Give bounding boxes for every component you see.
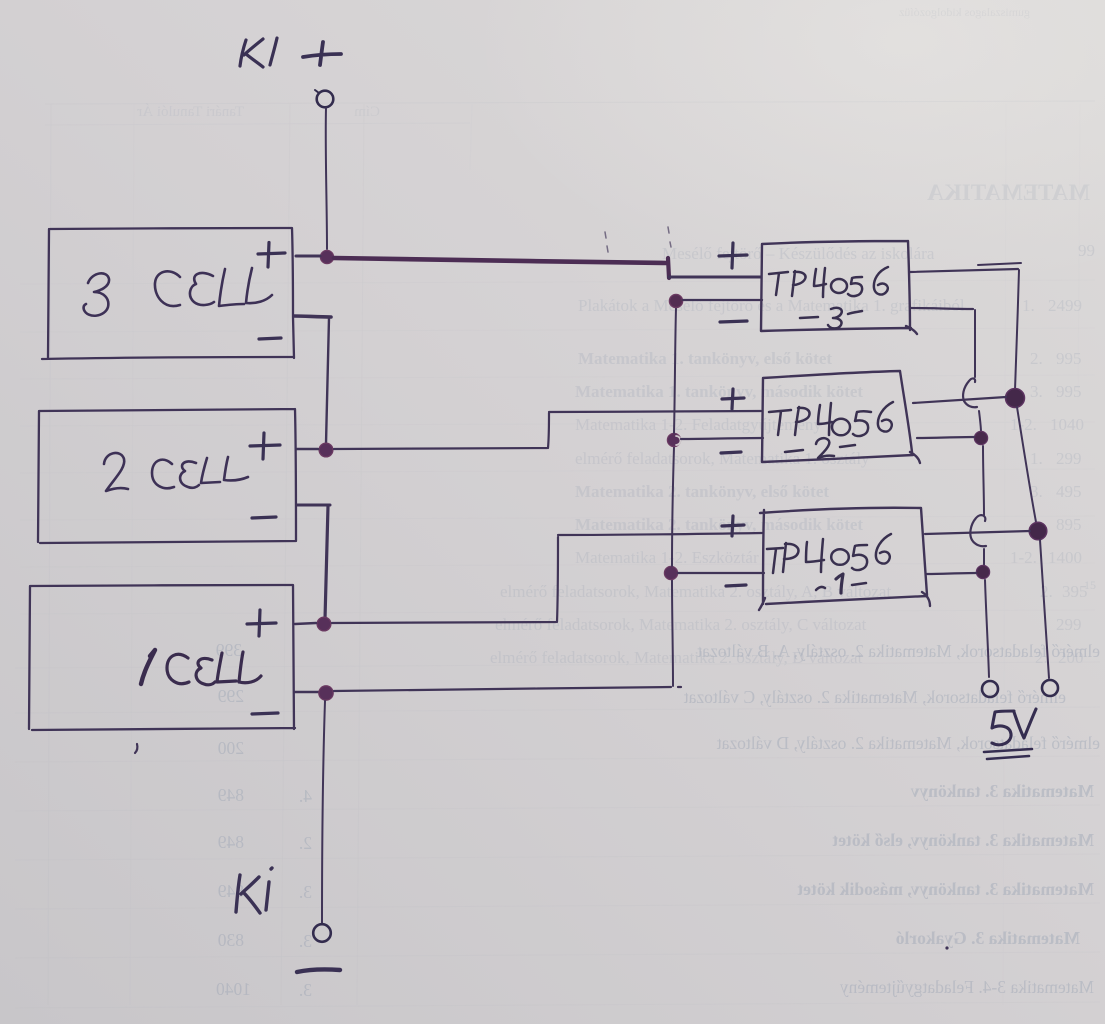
svg-text:3.: 3. [299,931,312,951]
wire 5V+ bus node A down to node B [1017,407,1036,522]
wire 5V- bus hop to node D [983,549,985,565]
svg-text:1040: 1040 [216,979,251,999]
terminal KI- circle [313,924,331,942]
terminal 5V+ circle [1042,680,1058,696]
label TP4056 (U1) [767,534,891,573]
stray dot right bottom [945,946,948,949]
wire 1CELL- exit to node 1CELL- [295,691,318,694]
svg-text:299: 299 [1056,449,1082,468]
label 5V [992,709,1036,745]
label - at U3 input [720,321,747,322]
svg-text:399: 399 [216,640,243,660]
label - of KI- [297,969,340,972]
svg-text:1040: 1040 [1050,415,1084,434]
svg-text:Matematika 1. tankönyv, másodi: Matematika 1. tankönyv, második kötet [575,382,863,401]
label - of 2 CELL [252,517,276,518]
node 1CELL+ junction dot [317,617,331,631]
svg-text:Mesélő fejtörő – Készülődés az: Mesélő fejtörő – Készülődés az iskolára [662,244,935,263]
svg-text:Cím: Cím [354,104,380,120]
stray comma mark below 1 CELL [135,744,137,753]
label 5V underline [984,749,1032,759]
svg-text:4.: 4. [299,786,312,806]
label + at U1 input [722,516,744,536]
label -2- (U2) [785,438,855,458]
wire U2 OUT+ to node A [913,397,1006,403]
label 2 CELL text [104,453,248,491]
wire U2 B- into module [681,438,763,439]
svg-text:Matematika 3-4. Feladatgyűjtem: Matematika 3-4. Feladatgyűjtemény [840,977,1094,997]
wire 3CELL- exit to series link [294,316,331,317]
wire 5V- bus node D down to 5V- terminal [985,580,989,677]
wire 5V- bus node C down to hop over U1 OUT+ [983,446,984,515]
node U2 B- junction dot [667,433,680,446]
svg-text:2.: 2. [1030,349,1043,368]
terminal 5V- circle [982,681,998,697]
wire node 2CELL+ to TP4056-2 B+ (with step up) [334,411,761,449]
svg-text:849: 849 [218,785,245,805]
wire 5V+ bus down to node A [1015,270,1019,390]
svg-text:895: 895 [1056,515,1082,534]
label Ki (bottom) [236,868,272,913]
stray ink dashes above KI+ wire [605,227,671,252]
wire B- bus from U1 node up to U2 node [672,447,674,566]
label + of 2 CELL [250,433,280,459]
svg-text:99: 99 [1078,241,1095,260]
node 1CELL- junction dot [319,686,333,700]
svg-text:200: 200 [218,738,245,758]
svg-text:3.: 3. [299,882,312,902]
wire U3 OUT- to 5V- bus corner [910,308,973,309]
svg-text:elmérő feladatsorok, Matematik: elmérő feladatsorok, Matematika 2. osztá… [717,733,1100,753]
label TP4056 (U3) [769,267,888,297]
label + at U2 input [722,389,744,409]
battery B1 box (1 CELL) [29,585,295,730]
svg-text:Matematika 3. tankönyv: Matematika 3. tankönyv [910,781,1094,801]
wire 2CELL- exit to series link [297,504,330,507]
label 3 CELL text [84,268,272,316]
svg-text:Plakátok a Mesélő fejtörő és a: Plakátok a Mesélő fejtörő és a Matematik… [578,296,965,315]
wire node 1CELL- to B- bus corner [334,687,681,691]
node 3CELL+ junction dot [320,250,333,263]
svg-text:Matematika 1-2. Feladatgyűjtem: Matematika 1-2. Feladatgyűjtemény [575,415,822,434]
label + of 1 CELL [247,610,276,636]
label + at U3 input [719,243,747,268]
svg-text:1400: 1400 [1048,548,1082,567]
label 1 CELL text [141,650,261,685]
svg-text:2.: 2. [299,833,312,853]
svg-text:Matematika 2. tankönyv, másodi: Matematika 2. tankönyv, második kötet [575,515,863,534]
svg-text:495: 495 [1056,482,1082,501]
module U1 box (TP4056 -1-) [759,508,930,610]
node 2CELL+ junction dot [319,443,333,457]
wire U3 OUT+ to 5V+ bus corner [910,269,1018,272]
label - of 1 CELL [252,713,278,714]
node A junction dot (U2 OUT+ joins 5V+ bus) [1006,389,1025,408]
label TP4056 (U2) [769,402,893,436]
svg-text:830: 830 [218,930,245,950]
svg-text:2499: 2499 [1048,296,1082,315]
node D junction dot (U1 OUT- joins 5V- bus) [976,565,989,578]
svg-text:elmérő feladatsorok, Matematik: elmérő feladatsorok, Matematika 2. osztá… [697,641,1100,661]
svg-text:15: 15 [1084,578,1096,592]
wire series link 3CELL- down to node 2CELL+ [326,318,329,444]
label -1- (U1) [816,574,866,593]
module U3 box (TP4056 -3-) [761,241,917,334]
label + of 3 CELL [258,243,285,268]
wire B- bus rising from corner to U1 B- node [672,580,673,686]
wire node 1CELL+ to TP4056-1 B+ (with step up) [332,533,762,623]
wire overshoot tick above corner [978,263,1021,265]
wire node 2CELL+ to battery 2 CELL plus terminal [297,448,318,451]
svg-text:3.: 3. [1030,382,1043,401]
wire jog down at x668 [668,258,669,278]
svg-text:Matematika 3. Gyakorló: Matematika 3. Gyakorló [896,928,1080,948]
wire into TP4056-3 B+ pin [669,276,761,279]
module U2 box (TP4056 -2-) [762,371,920,463]
wire series link 2CELL- down to node 1CELL+ [325,506,328,619]
label - at U2 input [721,452,741,453]
wire KI+ terminal to node 3CELL+ [326,108,327,249]
wire 5V- bus down to hop over U2 OUT+ [974,310,976,377]
svg-text:Matematika 3. tankönyv, első k: Matematika 3. tankönyv, első kötet [832,830,1094,850]
svg-text:MATEMATIKA: MATEMATIKA [927,180,1090,205]
svg-text:299: 299 [1056,615,1082,634]
wire U1 OUT+ to node B [925,531,1030,534]
svg-text:995: 995 [1056,349,1082,368]
wire 5V- bus hop to node C [979,411,981,432]
terminal KI+ circle [315,90,333,107]
label - of 3 CELL [259,338,281,339]
svg-text:elmérő feladatsorok, Matematik: elmérő feladatsorok, Matematika 2. osztá… [495,615,867,634]
wire hop (5V- bus jumps U1 OUT+ wire) [970,515,986,546]
svg-text:elmérő feladatsorok, Matematik: elmérő feladatsorok, Matematika 2. osztá… [684,687,1066,707]
wire U1 OUT- to node D [927,573,976,574]
wire B- bus from U2 node up to U3 node [674,308,676,433]
svg-text:995: 995 [1056,382,1082,401]
wire node 3CELL+ to TP4056-3 B+ (thick) [334,258,667,263]
node B junction dot (U1 OUT+ joins 5V+ bus) [1029,522,1047,540]
wire hop (5V- bus jumps U2 OUT+ wire) [963,378,977,407]
svg-text:1-2.: 1-2. [1010,415,1037,434]
node U3 B- junction blob [669,294,682,307]
wire 5V+ bus node B down to 5V+ terminal [1040,540,1049,678]
svg-text:849: 849 [218,832,245,852]
svg-text:1-2.: 1-2. [1010,548,1037,567]
wire node 1CELL- down to KI- terminal [322,701,325,924]
wire U3 B- into module [683,299,762,301]
svg-text:Matematika 2. tankönyv, első k: Matematika 2. tankönyv, első kötet [575,482,829,501]
svg-text:Tanári Tanulói Ár: Tanári Tanulói Ár [137,103,244,120]
battery B3 box (3 CELL) [42,228,294,359]
svg-text:Matematika 1. tankönyv, első k: Matematika 1. tankönyv, első kötet [578,349,832,368]
svg-text:gumiszalagos kidolgozóíüz: gumiszalagos kidolgozóíüz [899,5,1030,19]
svg-text:3.: 3. [299,980,312,1000]
svg-text:299: 299 [218,686,245,706]
svg-text:Matematika 3. tankönyv, másodi: Matematika 3. tankönyv, második kötet [797,879,1094,899]
label KI+ (output terminal label, top) [240,38,341,67]
wire node 1CELL+ to battery 1 CELL plus terminal [295,623,316,624]
label -3- (U3) [800,308,862,329]
svg-text:1.: 1. [1030,449,1043,468]
node U1 B- junction dot [664,566,677,579]
node C junction dot (U2 OUT- joins 5V- bus) [974,431,987,444]
label - at U1 input [726,585,746,586]
wire U2 OUT- to node C [917,437,974,438]
svg-text:1.: 1. [1022,296,1035,315]
wire U1 B- into module [678,572,764,574]
wire node 3CELL+ to battery 3 CELL plus terminal [296,255,320,258]
svg-text:Matematika 1-2. Eszköztár: Matematika 1-2. Eszköztár [575,548,759,567]
battery B2 box (2 CELL) [38,409,296,543]
